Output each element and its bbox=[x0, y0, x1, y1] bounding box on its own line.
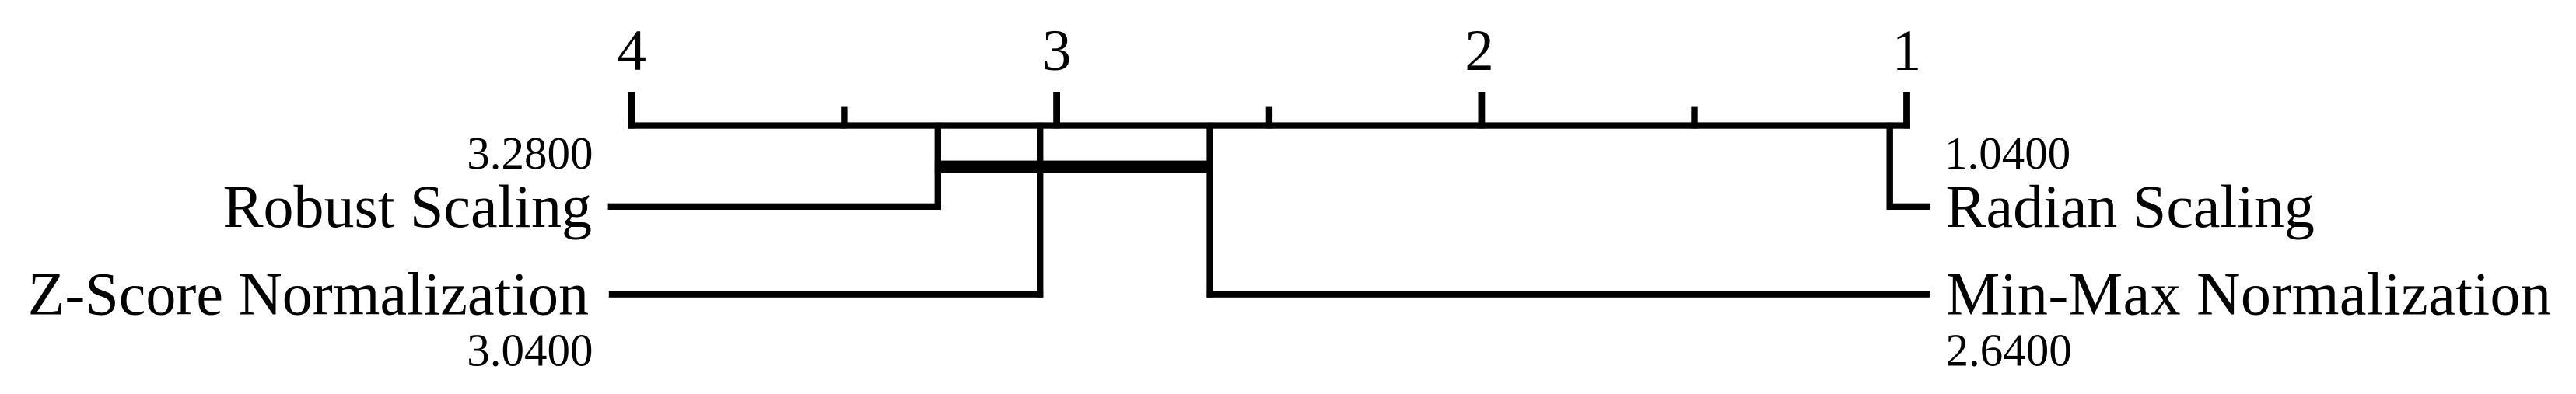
svg-text:Radian Scaling: Radian Scaling bbox=[1946, 173, 2315, 240]
horizontal lead line Robust Scaling bbox=[608, 204, 941, 210]
horizontal lead line Z-Score Normalization bbox=[609, 291, 1044, 298]
major tick rank 4 bbox=[628, 92, 635, 129]
svg-text:Z-Score Normalization: Z-Score Normalization bbox=[28, 260, 589, 328]
major tick rank 1 bbox=[1903, 92, 1910, 129]
horizontal lead line Min-Max Normalization bbox=[1206, 291, 1930, 298]
CD significance bar connecting Robust, Z-Score, Min-Max bbox=[935, 161, 1213, 173]
axis line (rank scale 4 to 1) bbox=[628, 122, 1910, 128]
major tick rank 2 bbox=[1479, 92, 1486, 129]
svg-text:Robust Scaling: Robust Scaling bbox=[222, 173, 592, 240]
minor tick rank 2.5 bbox=[1266, 107, 1272, 129]
major tick rank 3 bbox=[1053, 92, 1060, 129]
vertical line Min-Max Normalization (rank 2.64) bbox=[1206, 122, 1213, 297]
svg-text:3.2800: 3.2800 bbox=[467, 127, 593, 179]
svg-text:2.6400: 2.6400 bbox=[1946, 325, 2072, 376]
minor tick rank 3.5 bbox=[841, 107, 847, 129]
horizontal lead line Radian Scaling bbox=[1887, 204, 1930, 210]
svg-text:2: 2 bbox=[1465, 19, 1494, 83]
svg-text:4: 4 bbox=[617, 19, 646, 83]
minor tick rank 1.5 bbox=[1691, 107, 1697, 129]
svg-text:1: 1 bbox=[1892, 19, 1922, 83]
svg-text:Min-Max Normalization: Min-Max Normalization bbox=[1946, 260, 2551, 328]
vertical line Radian Scaling (rank 1.04) bbox=[1887, 122, 1893, 210]
svg-text:3.0400: 3.0400 bbox=[467, 325, 593, 376]
vertical line Robust Scaling (rank 3.28) bbox=[935, 122, 941, 210]
svg-text:3: 3 bbox=[1042, 19, 1072, 83]
svg-text:1.0400: 1.0400 bbox=[1944, 127, 2070, 179]
vertical line Z-Score Normalization (rank 3.04) bbox=[1037, 122, 1043, 297]
